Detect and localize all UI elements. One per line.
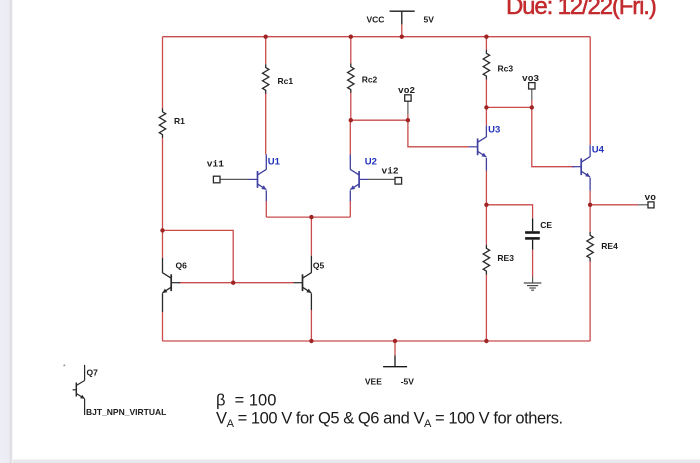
wire U2 collector (349, 120, 351, 154)
wire VEE stub (394, 341, 396, 355)
svg-text:U3: U3 (488, 125, 500, 136)
wire Rc3 top (485, 37, 487, 50)
svg-text:VEE: VEE (365, 377, 382, 387)
node base net junction (231, 281, 235, 285)
svg-text:Rc3: Rc3 (498, 64, 514, 74)
node R1 Q6 collector junction (160, 228, 164, 232)
pin mark (63, 364, 65, 366)
wire Q6 emitter to rail (162, 312, 164, 341)
node Rc1 top junction (264, 35, 268, 39)
transistor U1 (249, 169, 267, 189)
ground (524, 283, 542, 290)
wire top rail (163, 36, 591, 38)
wire U4 emitter down (589, 191, 591, 205)
transistor Q5 (294, 273, 312, 293)
node Rc3 top junction (484, 35, 488, 39)
svg-text:Q7: Q7 (87, 368, 99, 378)
resistor Rc2 (348, 64, 354, 93)
wire Rc2 bottom to vo2 junction (350, 93, 352, 121)
svg-text:-5V: -5V (401, 377, 415, 387)
node vo2 junction left (349, 118, 353, 122)
resistor RE3 (483, 245, 489, 274)
wire vo2 horizontal (351, 119, 408, 121)
wire vo horizontal (590, 204, 638, 206)
svg-text:vi1: vi1 (207, 159, 224, 170)
wire emitter join U1-U2 (266, 216, 350, 218)
svg-text:vo: vo (645, 192, 657, 203)
node vo3 junction left (484, 105, 488, 109)
wire vi1 to U1 base (220, 178, 249, 180)
resistor R1 (159, 109, 165, 138)
resistor Rc1 (263, 64, 269, 93)
wire vo2 stem lower (407, 115, 409, 121)
wire Rc3 bottom to node vo3 (485, 79, 487, 107)
svg-text:R1: R1 (174, 116, 185, 126)
node Rc2 top junction (349, 35, 353, 39)
wire vo2 stem upper (407, 101, 409, 114)
wire U3 emitter to CE (486, 205, 532, 219)
capacitor CE (525, 218, 540, 249)
wire vo stub (638, 204, 648, 206)
transistor U3 (469, 137, 487, 157)
node VCC junction (400, 35, 404, 39)
node rail Q5 junction (309, 339, 313, 343)
wire vi2 from U2 base (368, 178, 395, 180)
wire U3 emitter down (485, 171, 487, 205)
svg-text:RE4: RE4 (601, 241, 618, 251)
transistor Q6 (162, 273, 180, 293)
wire vo3 down to U4 base (532, 107, 575, 166)
node vo terminal (648, 202, 654, 208)
resistor RE4 (587, 232, 593, 261)
node vo2 junction (406, 118, 410, 122)
svg-text:Rc2: Rc2 (362, 75, 378, 85)
transistor Q7 (73, 365, 85, 415)
wire vo2 down to U3 base (408, 120, 469, 147)
node vo3 terminal (529, 83, 535, 89)
wire down to Q5 collector (310, 217, 312, 256)
svg-text:RE3: RE3 (497, 253, 514, 263)
svg-text:U1: U1 (268, 157, 281, 168)
wire RE4 bottom to rail (589, 261, 591, 341)
wire Q5 emitter to rail (310, 310, 312, 341)
wire left rail upper (162, 37, 164, 109)
svg-text:Rc1: Rc1 (278, 76, 294, 86)
svg-text:Q6: Q6 (176, 261, 188, 271)
wire U2 emitter down (349, 201, 351, 217)
svg-text:β = 100: β = 100 (216, 392, 276, 410)
node U3 emitter junction (484, 203, 488, 207)
wire Q5 Q6 base net (179, 282, 294, 284)
wire Rc2 top (350, 37, 352, 64)
node vo2 terminal (405, 95, 411, 101)
wire bottom rail (163, 340, 591, 342)
wire left rail mid (162, 138, 164, 259)
transistor U4 (572, 157, 590, 177)
wire right branch to U4 collector (589, 37, 591, 146)
wire RE4 top (589, 205, 591, 232)
wire CE middle (532, 250, 534, 277)
svg-text:Q5: Q5 (313, 261, 325, 271)
node vi1 terminal (213, 176, 220, 183)
svg-text:5V: 5V (424, 15, 435, 25)
wire RE3 bottom to rail (485, 274, 487, 341)
wire Q6 diode connection (163, 230, 234, 282)
wire U1 emitter down (265, 201, 267, 217)
wire U3 collector (485, 107, 487, 125)
svg-text:VA = 100 V for Q5 & Q6 and VA: VA = 100 V for Q5 & Q6 and VA = 100 V fo… (216, 410, 563, 431)
svg-text:CE: CE (540, 220, 552, 230)
node diff pair emitter junction (309, 215, 313, 219)
wire vo3 stem upper (531, 89, 533, 100)
svg-text:VCC: VCC (367, 15, 385, 25)
wire Rc1 bottom to U1 collector (265, 93, 267, 154)
transistor U2 (350, 169, 368, 189)
node rail RE3 junction (484, 339, 488, 343)
wire CE to ground (532, 277, 534, 284)
power VEE symbol (383, 355, 407, 366)
wire Rc1 top (265, 37, 267, 64)
svg-text:Due: 12/22(Fri.): Due: 12/22(Fri.) (506, 0, 656, 20)
svg-text:vo3: vo3 (522, 73, 539, 84)
node vo3 junction (530, 105, 534, 109)
svg-text:vo2: vo2 (398, 85, 415, 96)
node vi2 terminal (395, 178, 402, 185)
svg-text:U2: U2 (365, 157, 377, 168)
node U4 emitter junction (588, 203, 592, 207)
svg-text:U4: U4 (592, 145, 605, 156)
wire RE3 top (485, 205, 487, 245)
resistor Rc3 (483, 50, 489, 79)
power VCC symbol (390, 11, 415, 24)
wire VCC stub (401, 24, 403, 36)
node rail VEE junction (393, 339, 397, 343)
wire vo3 stem lower (531, 100, 533, 107)
svg-text:vi2: vi2 (382, 166, 399, 177)
svg-text:BJT_NPN_VIRTUAL: BJT_NPN_VIRTUAL (86, 407, 166, 417)
wire vo3 horizontal (486, 106, 531, 108)
